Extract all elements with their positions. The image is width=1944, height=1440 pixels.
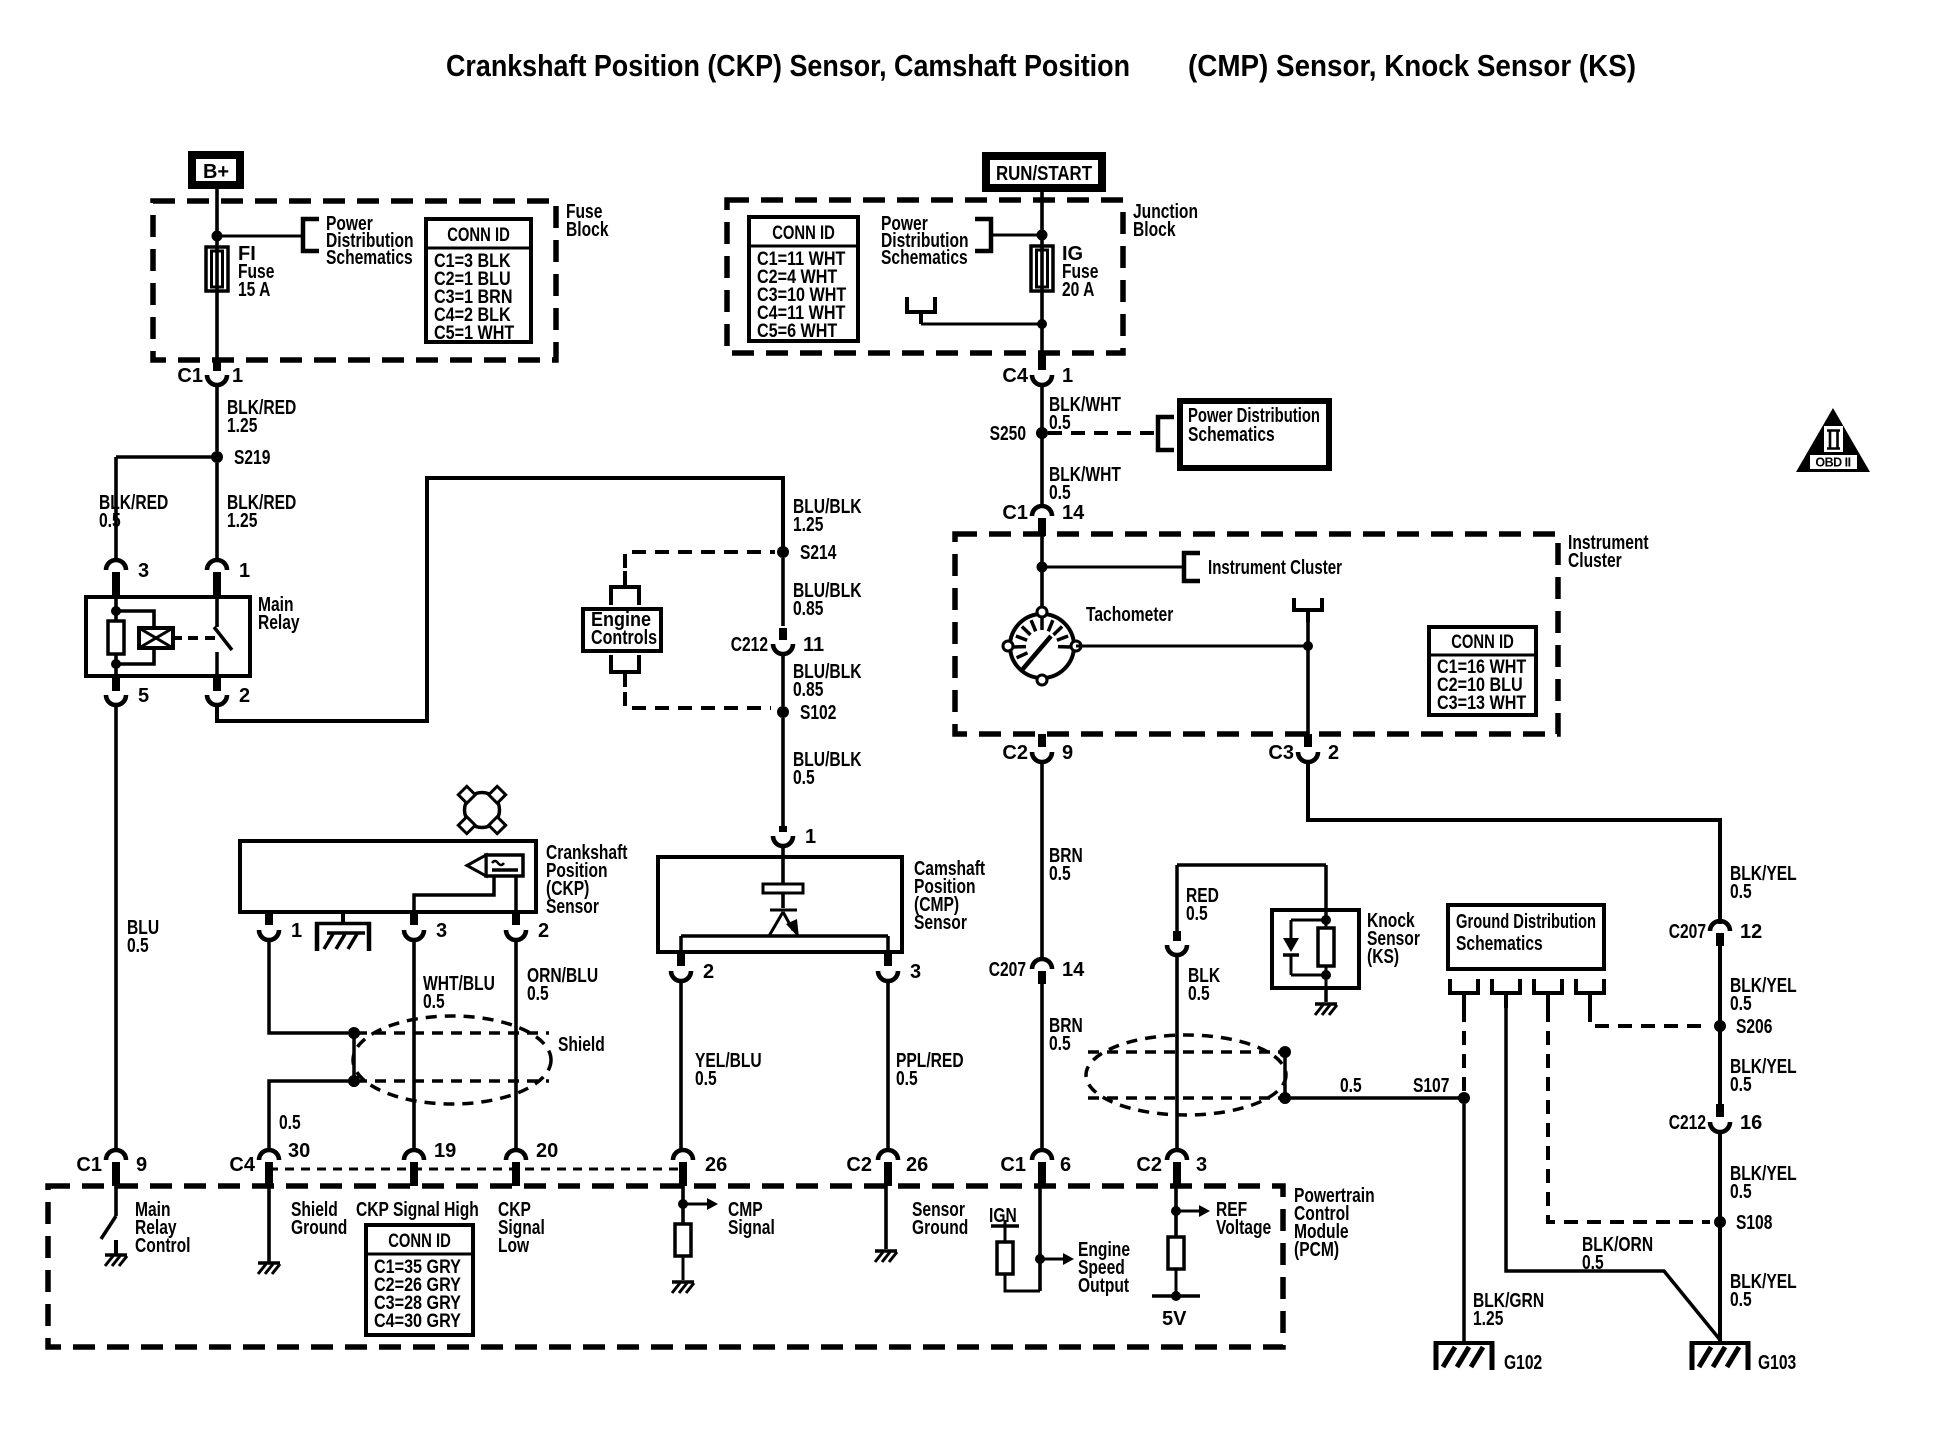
svg-text:1.25: 1.25 bbox=[227, 510, 257, 532]
svg-text:C4=30 GRY: C4=30 GRY bbox=[374, 1311, 461, 1332]
svg-text:S214: S214 bbox=[800, 542, 837, 564]
svg-text:S206: S206 bbox=[1736, 1016, 1772, 1038]
svg-text:20: 20 bbox=[536, 1140, 558, 1162]
svg-text:G102: G102 bbox=[1504, 1352, 1542, 1374]
svg-text:14: 14 bbox=[1062, 959, 1085, 981]
svg-text:0.5: 0.5 bbox=[423, 991, 445, 1013]
svg-text:C1: C1 bbox=[1000, 1154, 1026, 1176]
svg-text:C5=6 WHT: C5=6 WHT bbox=[757, 321, 838, 342]
svg-text:OBD II: OBD II bbox=[1815, 456, 1850, 470]
svg-text:Schematics: Schematics bbox=[1188, 424, 1275, 446]
svg-text:Ground: Ground bbox=[291, 1217, 347, 1239]
svg-text:0.5: 0.5 bbox=[127, 935, 149, 957]
svg-text:0.5: 0.5 bbox=[896, 1068, 918, 1090]
svg-text:Sensor: Sensor bbox=[914, 912, 967, 934]
svg-text:0.5: 0.5 bbox=[695, 1068, 717, 1090]
svg-text:Shield: Shield bbox=[558, 1034, 605, 1056]
svg-text:5: 5 bbox=[138, 685, 149, 707]
svg-text:0.5: 0.5 bbox=[1049, 863, 1071, 885]
svg-text:C4: C4 bbox=[229, 1154, 255, 1176]
svg-text:14: 14 bbox=[1062, 502, 1085, 524]
svg-text:3: 3 bbox=[910, 961, 921, 983]
svg-text:C3: C3 bbox=[1268, 742, 1294, 764]
svg-text:S250: S250 bbox=[990, 423, 1026, 445]
svg-text:CONN ID: CONN ID bbox=[388, 1231, 451, 1252]
svg-text:3: 3 bbox=[436, 920, 447, 942]
svg-text:15 A: 15 A bbox=[238, 279, 270, 301]
svg-text:0.5: 0.5 bbox=[1049, 482, 1071, 504]
svg-text:C207: C207 bbox=[1669, 921, 1706, 943]
svg-text:Ground: Ground bbox=[912, 1217, 968, 1239]
svg-text:20 A: 20 A bbox=[1062, 279, 1094, 301]
svg-text:0.5: 0.5 bbox=[1582, 1252, 1604, 1274]
svg-text:0.5: 0.5 bbox=[1730, 993, 1752, 1015]
svg-text:CONN ID: CONN ID bbox=[447, 225, 510, 246]
svg-text:1: 1 bbox=[232, 365, 243, 387]
svg-text:0.5: 0.5 bbox=[793, 767, 815, 789]
svg-text:1: 1 bbox=[805, 826, 816, 848]
svg-text:0.5: 0.5 bbox=[1730, 1181, 1752, 1203]
svg-text:Instrument Cluster: Instrument Cluster bbox=[1208, 557, 1342, 579]
svg-text:Control: Control bbox=[135, 1235, 191, 1257]
svg-text:C1: C1 bbox=[76, 1154, 102, 1176]
svg-text:Sensor: Sensor bbox=[546, 896, 599, 918]
svg-text:CONN ID: CONN ID bbox=[772, 223, 835, 244]
svg-text:(CMP) Sensor, Knock Sensor (KS: (CMP) Sensor, Knock Sensor (KS) bbox=[1188, 48, 1636, 83]
svg-text:Signal: Signal bbox=[728, 1217, 775, 1239]
svg-text:19: 19 bbox=[434, 1140, 456, 1162]
svg-text:2: 2 bbox=[1328, 742, 1339, 764]
svg-text:0.5: 0.5 bbox=[1186, 903, 1208, 925]
svg-text:2: 2 bbox=[239, 685, 250, 707]
svg-text:1: 1 bbox=[1062, 365, 1073, 387]
svg-text:IGN: IGN bbox=[989, 1205, 1017, 1227]
svg-text:C2: C2 bbox=[1136, 1154, 1162, 1176]
svg-text:C212: C212 bbox=[731, 634, 768, 656]
svg-text:1.25: 1.25 bbox=[227, 415, 257, 437]
svg-text:C207: C207 bbox=[989, 959, 1026, 981]
svg-text:S108: S108 bbox=[1736, 1212, 1772, 1234]
svg-text:G103: G103 bbox=[1758, 1352, 1796, 1374]
svg-text:C2: C2 bbox=[846, 1154, 872, 1176]
svg-text:0.5: 0.5 bbox=[99, 510, 121, 532]
svg-text:Relay: Relay bbox=[258, 612, 300, 634]
svg-text:0.5: 0.5 bbox=[1049, 1033, 1071, 1055]
svg-text:3: 3 bbox=[138, 560, 149, 582]
svg-text:S102: S102 bbox=[800, 702, 836, 724]
svg-text:C2: C2 bbox=[1002, 742, 1028, 764]
svg-text:1.25: 1.25 bbox=[1473, 1308, 1503, 1330]
svg-text:1: 1 bbox=[239, 560, 250, 582]
svg-text:1.25: 1.25 bbox=[793, 514, 823, 536]
svg-text:C1: C1 bbox=[177, 365, 203, 387]
svg-text:Low: Low bbox=[498, 1235, 530, 1257]
svg-text:0.5: 0.5 bbox=[1730, 1289, 1752, 1311]
svg-text:0.5: 0.5 bbox=[1049, 412, 1071, 434]
svg-text:12: 12 bbox=[1740, 921, 1762, 943]
svg-text:26: 26 bbox=[705, 1154, 727, 1176]
svg-text:0.5: 0.5 bbox=[1340, 1075, 1362, 1097]
svg-text:Schematics: Schematics bbox=[326, 247, 413, 269]
svg-text:C1: C1 bbox=[1002, 502, 1028, 524]
svg-text:0.5: 0.5 bbox=[1730, 1074, 1752, 1096]
svg-text:Block: Block bbox=[566, 219, 609, 241]
svg-text:2: 2 bbox=[538, 920, 549, 942]
svg-text:CKP Signal High: CKP Signal High bbox=[356, 1199, 479, 1221]
svg-text:RUN/START: RUN/START bbox=[996, 163, 1092, 185]
svg-text:0.5: 0.5 bbox=[1730, 881, 1752, 903]
svg-text:(PCM): (PCM) bbox=[1294, 1239, 1339, 1261]
svg-text:Ground Distribution: Ground Distribution bbox=[1456, 911, 1596, 933]
svg-text:S107: S107 bbox=[1413, 1075, 1449, 1097]
svg-text:C4: C4 bbox=[1002, 365, 1028, 387]
svg-text:26: 26 bbox=[906, 1154, 928, 1176]
svg-text:Schematics: Schematics bbox=[881, 247, 968, 269]
svg-text:5V: 5V bbox=[1162, 1308, 1187, 1330]
svg-text:0.85: 0.85 bbox=[793, 679, 823, 701]
svg-text:0.85: 0.85 bbox=[793, 598, 823, 620]
svg-text:11: 11 bbox=[803, 634, 824, 656]
svg-text:B+: B+ bbox=[203, 161, 229, 183]
svg-text:0.5: 0.5 bbox=[527, 983, 549, 1005]
svg-text:2: 2 bbox=[703, 961, 714, 983]
svg-text:C3=13 WHT: C3=13 WHT bbox=[1437, 693, 1527, 714]
svg-text:9: 9 bbox=[1062, 742, 1073, 764]
svg-text:Schematics: Schematics bbox=[1456, 933, 1543, 955]
svg-text:Cluster: Cluster bbox=[1568, 550, 1622, 572]
svg-text:16: 16 bbox=[1740, 1112, 1762, 1134]
svg-text:0.5: 0.5 bbox=[1188, 983, 1210, 1005]
svg-text:Crankshaft Position (CKP) Sens: Crankshaft Position (CKP) Sensor, Camsha… bbox=[446, 48, 1130, 83]
svg-text:1: 1 bbox=[291, 920, 302, 942]
svg-text:Controls: Controls bbox=[591, 627, 657, 649]
svg-text:30: 30 bbox=[288, 1140, 310, 1162]
svg-text:C212: C212 bbox=[1669, 1112, 1706, 1134]
svg-text:C5=1 WHT: C5=1 WHT bbox=[434, 323, 515, 344]
svg-text:3: 3 bbox=[1196, 1154, 1207, 1176]
svg-text:Block: Block bbox=[1133, 219, 1176, 241]
svg-text:Tachometer: Tachometer bbox=[1086, 604, 1173, 626]
svg-text:9: 9 bbox=[136, 1154, 147, 1176]
svg-text:6: 6 bbox=[1060, 1154, 1071, 1176]
svg-text:S219: S219 bbox=[234, 447, 270, 469]
svg-text:(KS): (KS) bbox=[1367, 946, 1399, 968]
svg-text:Output: Output bbox=[1078, 1275, 1129, 1297]
svg-text:0.5: 0.5 bbox=[279, 1112, 301, 1134]
svg-text:CONN ID: CONN ID bbox=[1451, 632, 1514, 653]
svg-text:Voltage: Voltage bbox=[1216, 1217, 1271, 1239]
